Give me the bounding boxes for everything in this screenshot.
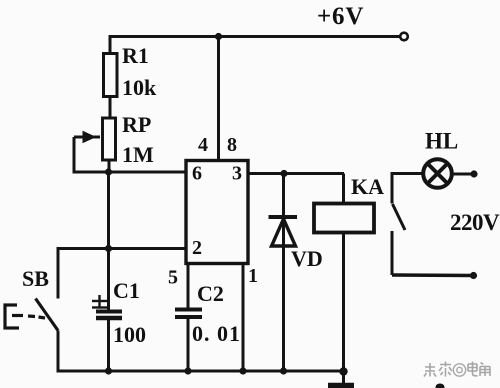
svg-text:8: 8: [227, 134, 237, 156]
terminal bottom 220V: [470, 272, 477, 279]
diode VD: [269, 174, 298, 372]
relay coil KA: [342, 174, 345, 205]
node C1: [105, 367, 112, 374]
C1 polarity mark: [92, 295, 107, 308]
RP wiper arrow: [74, 132, 100, 143]
wire pin 6: [109, 171, 188, 174]
ground symbol: [342, 371, 345, 383]
IC 555 U1: [186, 161, 248, 264]
node C2: [184, 367, 191, 374]
switch SB blade: [36, 299, 59, 331]
svg-text:10k: 10k: [122, 75, 157, 100]
bottom rail wire: [57, 370, 344, 373]
watermark 头条@电巢: [424, 362, 490, 377]
wire relay to ground rail: [342, 233, 345, 373]
wire RP bottom lead: [108, 160, 111, 174]
node relay/ground: [339, 367, 347, 375]
svg-text:2: 2: [192, 237, 202, 259]
svg-text:6: 6: [192, 163, 202, 185]
node junction VD: [280, 170, 287, 177]
svg-text:SB: SB: [22, 266, 49, 291]
svg-text:+6V: +6V: [317, 3, 364, 30]
SB pushbutton actuator: [4, 304, 46, 330]
wire left rail down: [107, 172, 110, 311]
capacitor C1: [96, 310, 122, 314]
switch SB upper stub: [57, 247, 60, 299]
svg-text:3: 3: [232, 163, 242, 185]
wire R1-RP lead: [109, 97, 112, 120]
svg-text:4: 4: [198, 134, 208, 156]
wire lamp left: [392, 172, 424, 175]
svg-text:0. 01: 0. 01: [192, 321, 241, 346]
lamp HL: [423, 159, 452, 188]
node pin1: [239, 367, 246, 374]
wire pin 2: [58, 247, 187, 250]
contact KA upper stub: [391, 172, 394, 204]
wire pin 1 down: [242, 263, 245, 371]
dark blob bottom edge: [436, 384, 445, 388]
wire R1 top lead: [109, 35, 112, 55]
wire pins 4,8 to rail: [217, 37, 220, 162]
svg-text:220V: 220V: [450, 210, 500, 235]
svg-text:C1: C1: [113, 278, 140, 303]
svg-text:5: 5: [168, 267, 178, 289]
svg-text:VD: VD: [291, 246, 323, 271]
svg-text:1M: 1M: [122, 142, 154, 167]
svg-text:R1: R1: [122, 43, 149, 68]
wire pin 3: [248, 172, 344, 175]
wire top rail: [110, 35, 400, 38]
terminal +6V open circle: [400, 33, 408, 41]
switch SB lower stub: [57, 331, 60, 373]
svg-text:1: 1: [248, 265, 258, 287]
node VD: [280, 367, 287, 374]
wire wiper to bottom of RP: [74, 137, 106, 172]
node junction top rail: [215, 33, 222, 40]
wire lamp right: [452, 173, 473, 176]
contact KA lower stub: [391, 231, 394, 275]
potentiometer RP: [103, 118, 116, 160]
terminal top 220V: [470, 170, 477, 177]
contact KA blade: [393, 204, 406, 230]
svg-text:RP: RP: [122, 112, 151, 137]
svg-text:KA: KA: [351, 174, 384, 199]
resistor R1: [104, 54, 118, 97]
svg-text:C2: C2: [197, 281, 224, 306]
svg-text:HL: HL: [425, 129, 458, 154]
svg-text:100: 100: [113, 322, 146, 347]
node junction pin2/left rail: [105, 245, 112, 252]
node junction RP/pin6: [105, 168, 112, 175]
wire bottom 220V: [392, 273, 472, 277]
capacitor C2: [187, 263, 190, 308]
